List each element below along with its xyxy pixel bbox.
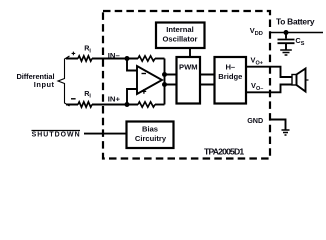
minus sign (bottom input polarity) [71, 98, 76, 100]
svg-text:SHUTDOWN: SHUTDOWN [32, 132, 80, 139]
svg-text:IN+: IN+ [108, 95, 121, 104]
resistor feedback bottom [138, 102, 155, 107]
svg-text:PWM: PWM [179, 63, 198, 72]
input brace [58, 56, 70, 106]
svg-text:VDD: VDD [250, 26, 263, 37]
bias circuitry block [127, 122, 174, 149]
svg-text:VO+: VO+ [251, 55, 263, 66]
svg-text:Internal: Internal [166, 25, 193, 34]
resistor feedback top [138, 56, 155, 61]
wire VDD dot to capacitor [285, 33, 287, 39]
capacitor CS [278, 39, 295, 41]
wire IN+ input segment [66, 104, 138, 106]
svg-text:Oscillator: Oscillator [162, 34, 197, 43]
wire PWM to H-Bridge [200, 75, 215, 85]
svg-text:Circuitry: Circuitry [135, 134, 167, 143]
ground (below CS) [280, 50, 292, 55]
svg-text:TPA2005D1: TPA2005D1 [204, 146, 244, 156]
plus sign (top input polarity) [72, 52, 76, 56]
wire output bus vertical [164, 59, 166, 105]
node IN- junction dot [125, 56, 130, 61]
svg-text:RI: RI [84, 89, 91, 100]
wire VO+ to speaker [246, 67, 292, 77]
node IN+ junction dot [125, 102, 130, 107]
wire feedback bottom to output bus [155, 104, 165, 106]
op-amp U1 [137, 66, 162, 94]
wire op-amp outputs to PWM [165, 75, 177, 85]
IC boundary dashed box TPA2005D1 [103, 11, 270, 159]
wire IN- input segment [66, 58, 138, 60]
wire VDD to battery [270, 32, 323, 34]
ground (GND pin) [282, 130, 290, 135]
PWM block [177, 57, 201, 104]
svg-text:H–: H– [225, 63, 235, 72]
wire feedback top to output bus [155, 58, 165, 60]
svg-text:To Battery: To Battery [276, 17, 315, 27]
node output+ junction dot [162, 72, 167, 77]
wire SHUTDOWN to bias circuitry [84, 133, 127, 135]
svg-text:Bridge: Bridge [218, 72, 242, 81]
svg-text:CS: CS [295, 36, 304, 47]
speaker [292, 75, 297, 86]
internal oscillator block [156, 23, 205, 49]
svg-text:Input: Input [34, 80, 55, 89]
node output- junction dot [162, 82, 167, 87]
svg-text:GND: GND [247, 116, 263, 125]
svg-text:Bias: Bias [142, 125, 158, 134]
wire GND to ground [270, 120, 286, 130]
wire capacitor to ground [285, 43, 287, 50]
label Differential Input [17, 72, 55, 89]
wire oscillator to PWM [189, 48, 191, 57]
node VDD junction dot [284, 30, 289, 35]
wire IN- to op-amp inverting input [127, 59, 137, 71]
resistor RI bottom [78, 102, 92, 107]
H-Bridge block [215, 57, 247, 104]
wire IN+ to op-amp non-inverting input [127, 89, 137, 105]
svg-text:IN–: IN– [108, 51, 121, 60]
wire VO- to speaker [246, 85, 292, 93]
resistor RI top [78, 56, 92, 61]
svg-text:RI: RI [84, 44, 91, 55]
svg-text:VO–: VO– [251, 81, 263, 92]
